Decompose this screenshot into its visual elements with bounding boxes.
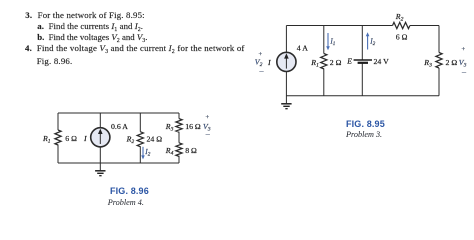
- svg-text:16 Ω: 16 Ω: [185, 122, 201, 131]
- wire source branch upper: [99, 113, 101, 128]
- wire top: [58, 112, 179, 114]
- wire source branch lower + ground stem: [99, 147, 101, 170]
- caption FIG. 8.96: [110, 187, 149, 196]
- wire R1 branch upper: [323, 26, 325, 54]
- resistor R3 zigzag: [436, 53, 442, 69]
- wire right branch upper: [438, 26, 440, 53]
- current arrow I1 (blue, down): [326, 33, 330, 50]
- resistor R2 zigzag: [137, 132, 143, 147]
- current source I circle: [277, 52, 296, 71]
- caption Problem 3: [346, 131, 382, 139]
- current source I arrow: [99, 133, 101, 144]
- svg-text:E: E: [346, 57, 352, 66]
- wire left branch lower + ground stem: [285, 72, 287, 103]
- current arrow I2 fig 8.96 (blue, down): [141, 147, 145, 160]
- svg-text:I: I: [267, 58, 271, 67]
- svg-text:4 A: 4 A: [297, 43, 308, 52]
- battery E long plate: [354, 59, 372, 61]
- labels FIG 8.96: [42, 114, 211, 157]
- svg-text:R4: R4: [165, 146, 174, 157]
- svg-text:I2: I2: [144, 148, 150, 157]
- svg-text:6 Ω: 6 Ω: [396, 32, 408, 41]
- current source I circle: [91, 128, 110, 147]
- svg-text:8 Ω: 8 Ω: [185, 146, 197, 155]
- svg-text:I2: I2: [369, 37, 375, 46]
- svg-text:R3: R3: [165, 122, 174, 133]
- resistor R3 zigzag: [176, 119, 182, 133]
- svg-text:R2: R2: [126, 135, 135, 146]
- resistor R1 zigzag: [321, 54, 327, 69]
- current source arrowhead 8.96: [98, 129, 103, 134]
- resistor R4 zigzag: [176, 143, 182, 157]
- labels FIG 8.95: [255, 12, 467, 76]
- wire R2 branch lower: [139, 146, 141, 163]
- problem text line 3b: [37, 33, 147, 42]
- wire top left (node to R2): [286, 25, 392, 27]
- problem text line 3: [25, 11, 144, 20]
- svg-text:I1: I1: [329, 37, 335, 46]
- wire left branch lower: [57, 145, 59, 164]
- wire E branch upper: [361, 26, 363, 60]
- svg-text:2 Ω: 2 Ω: [330, 58, 342, 67]
- svg-text:+: +: [206, 114, 210, 121]
- svg-text:R1: R1: [310, 58, 319, 69]
- current source I arrow: [285, 57, 287, 68]
- problem text line 4 cont: [37, 57, 73, 66]
- wire right branch upper: [178, 113, 180, 119]
- current arrow I2 (blue, up): [366, 32, 370, 49]
- wire R1 branch lower: [323, 68, 325, 95]
- problem text line 4: [25, 44, 245, 53]
- wire E branch lower: [361, 63, 363, 96]
- wire right branch lower: [438, 68, 440, 96]
- svg-text:I: I: [83, 134, 87, 143]
- resistor R2 zigzag: [393, 22, 410, 28]
- resistor R1 zigzag: [55, 130, 61, 145]
- problem text line 3a: [37, 22, 143, 31]
- wire top right: [410, 25, 439, 27]
- svg-text:–: –: [259, 66, 265, 75]
- svg-text:R2: R2: [395, 12, 404, 23]
- battery E short plate: [358, 62, 368, 64]
- svg-text:24 Ω: 24 Ω: [147, 135, 163, 144]
- wire left branch upper: [285, 26, 287, 53]
- svg-text:R1: R1: [42, 134, 51, 145]
- current source arrowhead: [284, 53, 289, 58]
- svg-text:0.6 A: 0.6 A: [111, 122, 128, 131]
- wire right branch lower: [178, 156, 180, 163]
- wire bottom: [58, 162, 179, 164]
- ground fig 8.96: [95, 171, 105, 176]
- wire left branch upper: [57, 113, 59, 130]
- svg-text:R3: R3: [423, 58, 432, 69]
- wire R2 branch upper: [139, 113, 141, 132]
- ground fig 8.95: [281, 104, 291, 109]
- svg-text:24 V: 24 V: [374, 57, 390, 66]
- svg-text:+: +: [462, 46, 466, 53]
- svg-text:6 Ω: 6 Ω: [65, 134, 77, 143]
- wire bottom: [286, 95, 439, 97]
- caption Problem 4: [108, 199, 144, 207]
- svg-text:2 Ω: 2 Ω: [446, 58, 458, 67]
- wire right branch middle: [178, 132, 180, 143]
- caption FIG. 8.95: [346, 120, 385, 129]
